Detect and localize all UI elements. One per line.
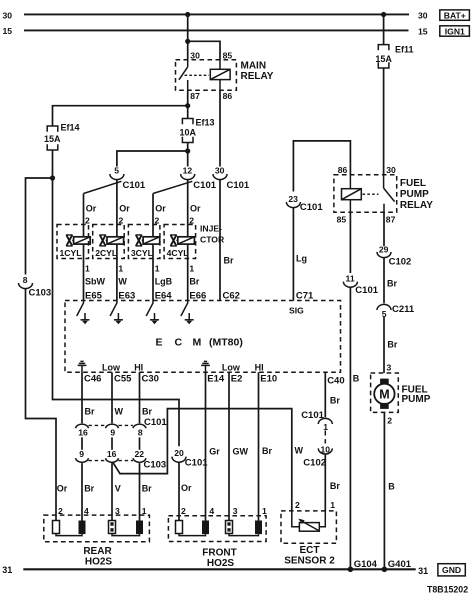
wire C102-10 to ECT pin 1 (Br) xyxy=(325,454,340,511)
svg-text:C103: C103 xyxy=(29,288,52,299)
ground rail 31 xyxy=(2,565,428,576)
wire injector 3 to ECM E64 (LgB) xyxy=(153,244,173,301)
wire C103-9 to rear HO2S pin 4 (Br) xyxy=(82,463,95,520)
wire fuse Ef13 feed xyxy=(187,106,189,119)
svg-text:Br: Br xyxy=(387,278,397,288)
svg-text:C40: C40 xyxy=(327,376,344,387)
svg-text:T8B15202: T8B15202 xyxy=(427,585,468,595)
wire C46 (Br) to connector row xyxy=(82,372,95,423)
svg-text:15A: 15A xyxy=(375,54,392,64)
svg-text:HO2S: HO2S xyxy=(85,556,113,567)
svg-text:G104: G104 xyxy=(354,559,378,570)
driver switch and ground at E65 inside ECM xyxy=(77,301,90,325)
label ECM pins C46 C55 C30 xyxy=(84,374,159,385)
svg-text:Or: Or xyxy=(190,203,201,213)
svg-text:16: 16 xyxy=(107,449,117,459)
wire left rail to rear HO2S pin 2 xyxy=(26,289,57,521)
svg-text:LgB: LgB xyxy=(155,276,173,286)
svg-text:30: 30 xyxy=(418,11,428,21)
wire Ef13 down to injector feed junction xyxy=(187,143,189,167)
svg-text:Br: Br xyxy=(387,339,397,349)
svg-text:Lg: Lg xyxy=(296,253,307,263)
wire dashed connector link xyxy=(324,431,326,444)
svg-text:2: 2 xyxy=(387,416,392,426)
svg-text:C102: C102 xyxy=(303,458,326,469)
svg-text:Low: Low xyxy=(222,362,241,372)
svg-text:31: 31 xyxy=(2,565,12,575)
svg-text:30: 30 xyxy=(386,165,396,175)
svg-text:REAR: REAR xyxy=(83,546,112,557)
wire C101-20 to front HO2S pin 2 (Or) xyxy=(179,462,192,520)
label Low HI above ECM bottom edge (front sensor side) xyxy=(222,362,264,372)
fuse Ef13 10A xyxy=(179,117,214,142)
connector 29 C102 xyxy=(377,244,411,267)
svg-text:3: 3 xyxy=(233,506,238,516)
svg-text:22: 22 xyxy=(135,449,145,459)
relay FUEL PUMP RELAY xyxy=(334,165,433,224)
svg-text:E14: E14 xyxy=(207,374,225,385)
svg-text:C101: C101 xyxy=(227,180,250,191)
injector 4CYL xyxy=(164,225,196,259)
wire fuel pump relay pin 85 down xyxy=(349,212,351,273)
connector 23 C101 xyxy=(286,194,323,213)
svg-text:GND: GND xyxy=(442,565,461,575)
thermistor ECT SENSOR 2 xyxy=(281,500,336,566)
svg-text:23: 23 xyxy=(288,194,298,204)
svg-text:1: 1 xyxy=(85,263,90,273)
svg-text:Br: Br xyxy=(84,484,94,494)
junction below main relay pin 87 xyxy=(185,103,190,108)
wire C101-30 to ECM C62 xyxy=(220,180,234,301)
svg-text:11: 11 xyxy=(346,274,355,284)
internal ground above E14 xyxy=(201,361,210,372)
svg-text:B: B xyxy=(388,481,395,491)
svg-text:Br: Br xyxy=(142,406,152,416)
wire C102-29 to C211 (Br) xyxy=(384,258,397,304)
svg-text:29: 29 xyxy=(379,244,389,254)
rear HO2S sensor box xyxy=(44,506,150,567)
svg-text:C30: C30 xyxy=(142,374,159,385)
svg-text:Or: Or xyxy=(181,483,192,493)
connector 8 C103 on left rail xyxy=(19,275,52,298)
svg-text:C102: C102 xyxy=(389,257,412,268)
wire main relay pin 87 down to junction xyxy=(187,90,189,105)
wire junction to fuse Ef14 xyxy=(53,106,188,126)
svg-text:8: 8 xyxy=(23,275,28,285)
wire C101 to C103 row pin 8-22 xyxy=(139,437,141,449)
node IGN1 terminal box xyxy=(440,26,470,37)
svg-text:SIG: SIG xyxy=(289,305,304,315)
svg-text:C62: C62 xyxy=(223,290,240,301)
junction above main relay xyxy=(185,39,190,44)
svg-text:85: 85 xyxy=(337,214,347,224)
svg-text:1: 1 xyxy=(262,506,267,516)
svg-text:Br: Br xyxy=(142,484,152,494)
wire E10 to front HO2S pin 1 (Br) xyxy=(259,372,273,520)
svg-text:9: 9 xyxy=(110,428,115,438)
svg-text:15: 15 xyxy=(418,26,428,36)
svg-text:1: 1 xyxy=(330,500,335,510)
wire fuse Ef11 to fuel pump relay pin 30 xyxy=(383,68,385,175)
svg-text:BAT+: BAT+ xyxy=(444,10,466,20)
svg-text:Br: Br xyxy=(189,276,199,286)
svg-text:C101: C101 xyxy=(144,417,167,428)
front HO2S sensor box xyxy=(168,506,267,569)
svg-text:Or: Or xyxy=(155,203,166,213)
driver switch and ground at E66 inside ECM xyxy=(181,301,194,325)
svg-text:1: 1 xyxy=(155,263,160,273)
junction at Ef14 rail branch xyxy=(50,175,55,180)
svg-text:MAIN: MAIN xyxy=(241,60,267,71)
svg-text:M: M xyxy=(379,388,389,402)
wire C101-11 to ground G104 (B) xyxy=(350,287,359,569)
wire C55 (W) to connector row xyxy=(112,372,124,423)
svg-text:Low: Low xyxy=(102,362,121,372)
wire bus 30 (BAT+) xyxy=(3,10,428,20)
svg-text:FRONT: FRONT xyxy=(202,547,236,558)
svg-text:SbW: SbW xyxy=(85,276,106,286)
svg-text:4CYL: 4CYL xyxy=(167,248,189,258)
svg-text:9: 9 xyxy=(79,449,84,459)
connector 12 C101 xyxy=(153,166,217,194)
svg-text:C46: C46 xyxy=(84,374,101,385)
label Low HI above ECM bottom edge (rear sensor side) xyxy=(102,362,143,372)
svg-text:E63: E63 xyxy=(118,290,135,301)
connector 5 C211 xyxy=(377,304,415,319)
connector 1 C101 on ECT branch xyxy=(301,410,332,432)
svg-text:Or: Or xyxy=(57,484,68,494)
svg-text:Br: Br xyxy=(262,446,272,456)
wire branch to left rail xyxy=(26,178,53,275)
svg-text:C55: C55 xyxy=(114,374,132,385)
junction on bus 30 at main relay feed xyxy=(185,12,190,17)
injector 2CYL xyxy=(93,225,125,259)
svg-text:Or: Or xyxy=(86,203,97,213)
svg-text:Ef14: Ef14 xyxy=(61,123,80,133)
svg-text:10A: 10A xyxy=(179,127,196,137)
svg-text:RELAY: RELAY xyxy=(400,200,433,211)
wire C101-23 to ECM C71 (Lg) xyxy=(293,208,307,301)
svg-text:30: 30 xyxy=(3,10,13,20)
svg-text:RELAY: RELAY xyxy=(241,71,274,82)
driver switch and ground at E64 inside ECM xyxy=(146,301,159,325)
svg-text:SENSOR 2: SENSOR 2 xyxy=(284,555,335,566)
injector 1CYL xyxy=(57,225,90,259)
svg-text:C71: C71 xyxy=(296,290,314,301)
svg-text:30: 30 xyxy=(215,166,225,176)
svg-text:30: 30 xyxy=(190,50,200,60)
svg-text:HI: HI xyxy=(134,362,143,372)
svg-text:1CYL: 1CYL xyxy=(60,248,82,258)
svg-text:15: 15 xyxy=(3,26,13,36)
svg-text:86: 86 xyxy=(338,165,348,175)
svg-text:W: W xyxy=(295,446,304,456)
svg-text:Gr: Gr xyxy=(209,447,220,457)
wire Ef14 to heater supply rail xyxy=(53,150,180,446)
svg-text:4: 4 xyxy=(209,506,214,516)
svg-text:2: 2 xyxy=(181,506,186,516)
svg-text:E64: E64 xyxy=(155,290,173,301)
wire E14 to front HO2S pin 4 (Gr) xyxy=(206,372,221,520)
svg-text:Ef11: Ef11 xyxy=(395,45,414,55)
svg-text:W: W xyxy=(118,276,127,286)
fuse Ef11 15A xyxy=(375,45,413,69)
svg-text:HI: HI xyxy=(255,362,264,372)
svg-text:C211: C211 xyxy=(392,304,415,315)
svg-text:1: 1 xyxy=(118,263,123,273)
junction ground G104 xyxy=(348,559,378,572)
svg-text:3: 3 xyxy=(115,506,120,516)
wire fuel pump relay pin 87 down xyxy=(383,212,385,246)
wire injector 4 feed (Or) xyxy=(188,180,201,237)
svg-text:12: 12 xyxy=(183,166,193,176)
wire to connector C101 pin 5 xyxy=(117,151,188,167)
svg-text:W: W xyxy=(115,406,124,416)
svg-text:C101: C101 xyxy=(193,180,216,191)
connector row C103 pins 9 16 22 xyxy=(76,449,167,471)
fuse Ef14 15A xyxy=(44,123,79,151)
junction injector feed split xyxy=(185,148,190,153)
svg-text:1: 1 xyxy=(323,422,328,432)
label INJECTOR xyxy=(200,224,225,245)
wire E2 to front HO2S pin 3 (GW) xyxy=(229,372,249,520)
junction ground G401 xyxy=(382,559,412,572)
svg-text:86: 86 xyxy=(223,91,233,101)
svg-text:CTOR: CTOR xyxy=(200,235,225,245)
wire fuel pump pin 2 to ground G401 (B) xyxy=(384,412,395,569)
wire C103-22 to rear HO2S pin 1 (Br) xyxy=(140,463,153,520)
svg-text:Br: Br xyxy=(85,406,95,416)
svg-text:16: 16 xyxy=(78,428,88,438)
junction on bus 30 at Ef11 feed xyxy=(381,12,386,17)
svg-text:V: V xyxy=(115,484,121,494)
svg-text:HO2S: HO2S xyxy=(207,558,235,569)
driver switch and ground at E63 inside ECM xyxy=(110,301,123,325)
node GND terminal box xyxy=(438,564,465,576)
svg-text:Br: Br xyxy=(224,256,234,266)
connector row C101 pins 16 9 8 xyxy=(76,417,168,438)
svg-text:Br: Br xyxy=(330,395,340,405)
svg-text:87: 87 xyxy=(190,91,200,101)
svg-text:8: 8 xyxy=(138,428,143,438)
svg-text:Br: Br xyxy=(330,481,340,491)
wire C101 to C103 row pin 16-9 xyxy=(81,437,83,449)
svg-text:C101: C101 xyxy=(123,180,146,191)
svg-text:PUMP: PUMP xyxy=(402,394,431,405)
wire injector 2 to ECM E63 (W) xyxy=(117,244,135,301)
svg-text:GW: GW xyxy=(233,447,249,457)
internal ground above C46 xyxy=(78,361,87,372)
connector 10 C102 on ECT branch xyxy=(303,444,332,468)
wire bus 15 (IGN1) xyxy=(3,26,428,36)
relay MAIN RELAY xyxy=(176,50,274,101)
svg-text:15A: 15A xyxy=(44,134,61,144)
svg-text:4: 4 xyxy=(84,506,89,516)
connector 30 C101 xyxy=(213,166,250,191)
wire C30 (Br) to connector row xyxy=(140,372,153,423)
wire C103-16 to rear HO2S pin 3 (V) xyxy=(112,463,121,520)
connector 20 C101 front heater feed xyxy=(172,448,208,469)
wire ECM SIG to fuel pump relay coil 86 xyxy=(293,141,350,192)
svg-text:85: 85 xyxy=(223,50,233,60)
wire injector 3 feed (Or) xyxy=(153,194,166,238)
wire injector 2 feed (Or) xyxy=(117,180,130,237)
svg-text:1: 1 xyxy=(189,263,194,273)
wire main relay pin 86 down xyxy=(219,90,221,166)
svg-text:20: 20 xyxy=(174,448,184,458)
svg-text:E65: E65 xyxy=(85,290,103,301)
svg-text:2CYL: 2CYL xyxy=(95,248,117,258)
svg-text:2: 2 xyxy=(58,506,63,516)
svg-text:B: B xyxy=(353,373,360,383)
svg-text:1: 1 xyxy=(142,506,147,516)
connector 5 C101 xyxy=(84,166,146,194)
svg-text:C101: C101 xyxy=(300,202,323,213)
wire C101 to C103 row pin 9-16 xyxy=(111,437,113,449)
wire from bus 30 down to fuse Ef11 xyxy=(383,15,385,45)
wire branch C103-16 to ECT sensor low reference xyxy=(113,409,292,511)
label ECM pins E14 E2 E10 xyxy=(207,374,277,385)
wire ECM C40 down (Br) xyxy=(325,372,340,417)
svg-text:INJE-: INJE- xyxy=(200,224,222,234)
ECM (MT80) box xyxy=(65,301,341,373)
motor FUEL PUMP xyxy=(371,373,431,412)
svg-text:IGN1: IGN1 xyxy=(445,26,465,36)
wire injector 1 to ECM E65 (SbW) xyxy=(84,244,106,301)
svg-text:FUEL: FUEL xyxy=(400,178,426,189)
svg-text:2: 2 xyxy=(85,216,90,226)
svg-text:PUMP: PUMP xyxy=(400,189,429,200)
svg-text:E10: E10 xyxy=(260,374,277,385)
node BAT+ terminal box xyxy=(440,10,470,21)
wire injector 4 to ECM E66 (Br) xyxy=(188,244,207,301)
svg-text:C101: C101 xyxy=(355,285,378,296)
svg-text:C103: C103 xyxy=(144,459,167,470)
injector 3CYL xyxy=(128,225,160,259)
svg-text:2: 2 xyxy=(295,500,300,510)
svg-text:E2: E2 xyxy=(231,374,243,385)
svg-text:Ef13: Ef13 xyxy=(196,117,215,127)
svg-text:3CYL: 3CYL xyxy=(131,248,153,258)
connector 11 C101 xyxy=(343,274,378,296)
wire C211 to fuel pump pin 3 (Br) xyxy=(384,317,398,373)
svg-text:31: 31 xyxy=(418,566,428,576)
svg-text:Or: Or xyxy=(119,203,130,213)
svg-text:5: 5 xyxy=(114,166,119,176)
wire from bus 30 down to main relay pin 30 xyxy=(187,15,189,60)
wire branch to main relay pin 85 xyxy=(188,41,220,60)
svg-text:G401: G401 xyxy=(388,559,412,570)
svg-text:E66: E66 xyxy=(189,290,206,301)
wire injector 1 feed (Or) xyxy=(84,194,97,238)
svg-text:3: 3 xyxy=(387,363,392,373)
svg-text:87: 87 xyxy=(386,214,396,224)
